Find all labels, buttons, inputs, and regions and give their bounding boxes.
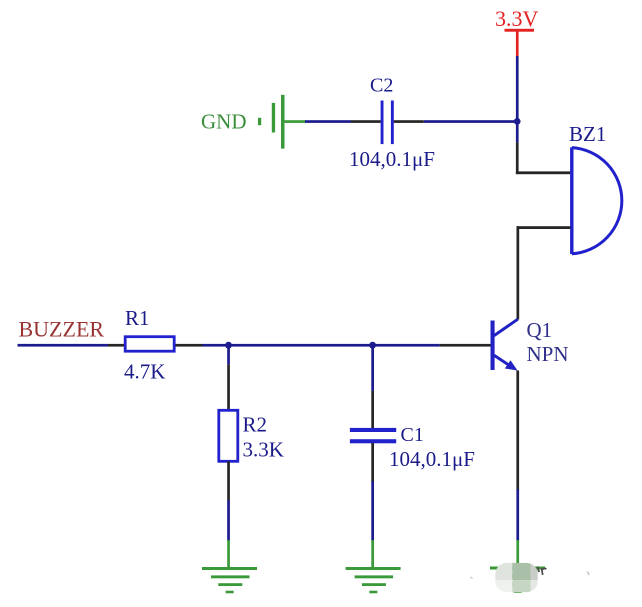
svg-text:BZ1: BZ1	[569, 122, 606, 146]
svg-text:R1: R1	[125, 306, 150, 330]
capacitor C1	[350, 428, 396, 443]
ground symbol (earth, under C1)	[346, 567, 401, 593]
label R1	[125, 306, 150, 330]
svg-text:BUZZER: BUZZER	[19, 317, 105, 342]
GND net label text	[201, 110, 247, 134]
power label 3.3V	[495, 6, 539, 31]
label BZ1	[569, 122, 606, 146]
resistor R2	[219, 410, 238, 461]
capacitor C2	[381, 101, 394, 145]
wire: R2 down to ground	[227, 461, 230, 568]
svg-text:C1: C1	[401, 424, 424, 446]
wire: ground stub to C2 (green then blue then dark)	[285, 120, 381, 123]
wire: node B to Q1 base	[373, 344, 491, 347]
value label 4.7K	[124, 360, 165, 384]
transistor Q1 (NPN)	[491, 319, 518, 370]
faint watermark remnant marks	[471, 567, 590, 579]
net label BUZZER	[19, 317, 105, 342]
svg-text:3.3K: 3.3K	[243, 438, 284, 462]
resistor R1	[125, 337, 174, 352]
value label 104,0.1uF (C1)	[389, 447, 475, 471]
label C2	[370, 75, 393, 97]
label NPN	[527, 342, 569, 366]
wire: C2 to 3.3V junction	[394, 120, 517, 123]
ground symbol (power ground, 3 bars)	[258, 95, 285, 149]
wire: left edge to R1	[18, 344, 125, 347]
label R2	[243, 413, 268, 437]
value label 104,0.1uF (C2)	[349, 147, 435, 171]
wire: Q1 emitter down to ground	[516, 371, 519, 567]
wire: C1 down to ground	[371, 443, 374, 568]
wire: 3.3V rail down to junction	[516, 56, 519, 122]
svg-text:NPN: NPN	[527, 342, 569, 366]
ground symbol (earth, under R2)	[202, 567, 257, 593]
svg-text:104,0.1μF: 104,0.1μF	[349, 147, 435, 171]
wire: node A down to R2	[227, 345, 230, 410]
svg-text:104,0.1μF: 104,0.1μF	[389, 447, 475, 471]
svg-text:4.7K: 4.7K	[124, 360, 165, 384]
svg-text:Q1: Q1	[527, 318, 553, 342]
watermark blur patch over Q1 ground	[495, 563, 538, 593]
label C1	[401, 424, 424, 446]
junction node B (C1/base)	[369, 342, 376, 349]
ground symbol (earth, under Q1)	[490, 567, 545, 593]
value label 3.3K	[243, 438, 284, 462]
wire: buzzer top stub	[516, 171, 571, 174]
label Q1	[527, 318, 553, 342]
svg-text:R2: R2	[243, 413, 268, 437]
junction node A (R1/R2)	[225, 342, 232, 349]
wire: node B down to C1	[371, 345, 374, 428]
buzzer BZ1	[570, 147, 622, 254]
svg-text:C2: C2	[370, 75, 393, 97]
junction node at 3.3V rail	[514, 118, 521, 125]
wire: node A to node B	[229, 344, 373, 347]
wire: buzzer bottom stub	[517, 226, 571, 229]
wire: R1 to node A	[176, 344, 229, 347]
svg-text:GND: GND	[201, 110, 247, 134]
power bar symbol 3.3V	[505, 29, 535, 57]
wire: buzzer down to Q1 collector	[517, 226, 520, 319]
svg-text:3.3V: 3.3V	[495, 6, 539, 31]
wire: junction down to buzzer top stub	[516, 121, 519, 174]
